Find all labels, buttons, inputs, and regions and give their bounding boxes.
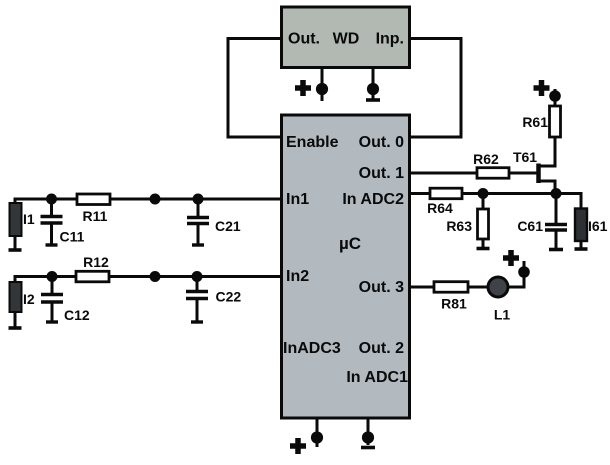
wire WD pin Inp.	[372, 68, 375, 99]
node dot uC bottom ground	[362, 431, 374, 443]
wire R63 top	[482, 194, 485, 210]
svg-text:C21: C21	[215, 218, 241, 234]
wire WD Out. to Enable	[228, 39, 280, 138]
svg-text:R81: R81	[441, 296, 467, 312]
resistor R12	[76, 271, 109, 282]
svg-text:In2: In2	[286, 268, 309, 285]
svg-text:InADC3: InADC3	[283, 340, 341, 357]
svg-text:R61: R61	[522, 114, 548, 130]
resistor R63	[478, 209, 489, 239]
wire In2 net	[15, 277, 280, 283]
svg-text:I1: I1	[23, 211, 35, 227]
wire R63 bottom	[482, 239, 485, 247]
node dot In ADC2 at C61	[551, 188, 562, 199]
wire uC bottom power pin	[316, 418, 319, 447]
svg-text:C22: C22	[216, 288, 242, 304]
power + symbol at L1	[503, 250, 519, 266]
svg-text:WD: WD	[333, 31, 360, 48]
node dot power R61	[549, 90, 561, 102]
svg-text:Out. 1: Out. 1	[359, 165, 404, 182]
sensor I61	[575, 209, 587, 248]
wire L1 to power	[508, 272, 524, 287]
wire In1 net	[15, 199, 280, 204]
ground at C11	[46, 243, 58, 246]
wire power to R61	[554, 89, 557, 106]
ground at WD Inp. pin	[366, 98, 380, 102]
node dot In1 mid	[150, 194, 161, 205]
sensor I1	[10, 203, 22, 249]
node dot uC bottom power	[311, 431, 323, 443]
wire WD Inp. to Out. 0	[411, 39, 461, 138]
node dot WD Out. pin	[316, 83, 328, 95]
svg-text:R62: R62	[473, 151, 499, 167]
ground at C22	[191, 320, 203, 323]
svg-text:C11: C11	[60, 229, 85, 245]
capacitor C22	[186, 277, 208, 322]
svg-text:Out. 2: Out. 2	[359, 340, 404, 357]
ground at uC bottom	[361, 446, 375, 450]
svg-text:R64: R64	[427, 200, 453, 216]
svg-text:C61: C61	[517, 218, 543, 234]
capacitor C21	[187, 199, 209, 244]
wire Out. 1 to R62	[411, 172, 477, 175]
ground at R63	[477, 247, 490, 251]
node dot In1 at C21	[193, 194, 204, 205]
svg-text:R63: R63	[446, 218, 472, 234]
resistor R81	[434, 282, 468, 293]
power + symbol at WD Out. pin	[295, 80, 311, 96]
capacitor C61	[545, 194, 567, 249]
svg-text:R11: R11	[83, 208, 108, 224]
resistor R61	[550, 106, 561, 137]
svg-text:I61: I61	[588, 218, 608, 234]
svg-text:C12: C12	[64, 307, 90, 323]
svg-text:Out.: Out.	[288, 31, 320, 48]
node dot In ADC2 at R63	[478, 188, 489, 199]
svg-text:R12: R12	[83, 254, 109, 270]
wire R81 to L1	[468, 286, 488, 289]
resistor R62	[477, 168, 509, 179]
wire R62 to T61 base	[509, 172, 537, 175]
watchdog box WD	[282, 7, 410, 68]
sensor I2	[10, 282, 22, 327]
svg-text:µC: µC	[339, 234, 361, 253]
resistor R11	[77, 194, 110, 205]
svg-text:In1: In1	[286, 191, 309, 208]
wire R61 to T61 collector	[554, 137, 557, 168]
node dot L1 power	[518, 266, 530, 278]
ground at I2	[9, 326, 22, 330]
lamp L1	[488, 277, 508, 297]
power + symbol at uC bottom	[290, 438, 306, 454]
ground at C61	[549, 248, 563, 252]
resistor R64	[430, 188, 462, 199]
power + symbol at R61	[534, 80, 550, 96]
svg-text:L1: L1	[494, 307, 511, 323]
microcontroller box U1	[282, 115, 410, 418]
svg-text:In ADC2: In ADC2	[342, 191, 404, 208]
svg-text:Out. 0: Out. 0	[359, 134, 404, 151]
svg-text:I2: I2	[23, 291, 35, 307]
node dot In1 at C11	[46, 194, 57, 205]
svg-text:Enable: Enable	[286, 134, 339, 151]
svg-text:In ADC1: In ADC1	[346, 369, 408, 386]
svg-text:Inp.: Inp.	[376, 31, 404, 48]
ground at I1	[9, 248, 22, 252]
wire stub above L1 power dot	[523, 261, 526, 272]
node dot In2 at C22	[192, 271, 203, 282]
wire Out. 3 to R81	[411, 286, 434, 289]
svg-text:Out. 3: Out. 3	[359, 279, 404, 296]
capacitor C12	[41, 277, 63, 322]
wire In ADC2 net	[411, 192, 581, 195]
wire WD pin Out. (power)	[321, 68, 324, 101]
ground at I61	[575, 247, 588, 251]
ground at C12	[46, 320, 58, 323]
node dot In2 at C12	[47, 271, 58, 282]
svg-text:T61: T61	[513, 149, 537, 165]
wire to I61	[580, 192, 583, 209]
ground at C21	[192, 243, 204, 246]
node dot WD Inp. pin	[367, 83, 379, 95]
transistor T61	[537, 164, 557, 195]
wire uC bottom ground pin	[367, 418, 370, 445]
capacitor C11	[41, 199, 63, 244]
node dot In2 mid	[150, 271, 161, 282]
